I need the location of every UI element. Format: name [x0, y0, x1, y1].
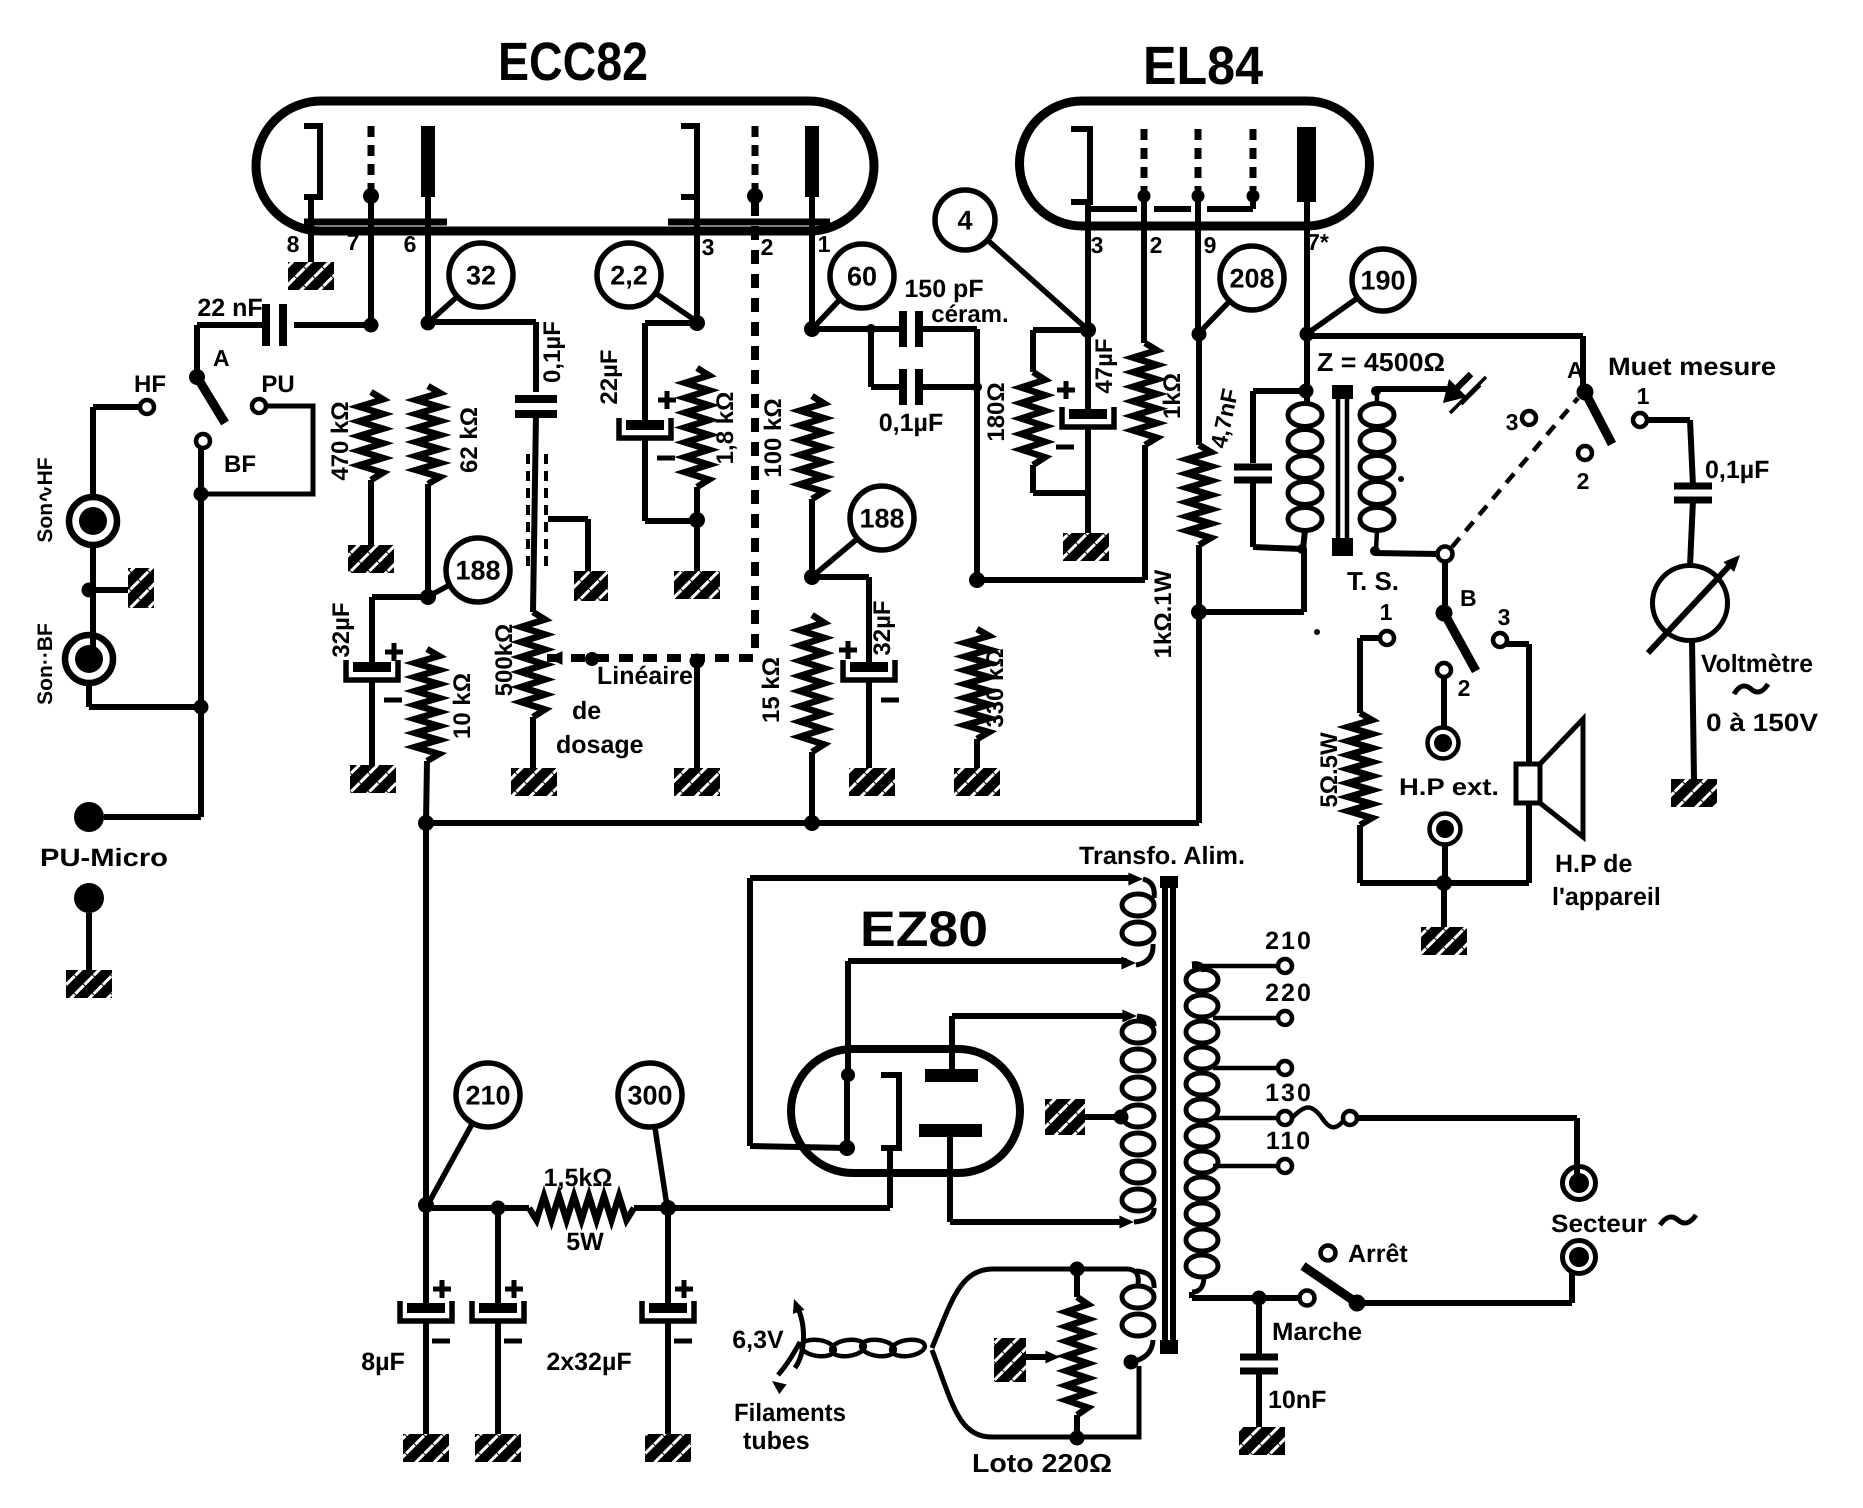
svg-text:Muet mesure: Muet mesure — [1608, 353, 1776, 381]
svg-text:2: 2 — [1150, 232, 1163, 258]
svg-text:100 kΩ: 100 kΩ — [760, 398, 787, 477]
svg-text:Voltmètre: Voltmètre — [1701, 650, 1813, 678]
svg-text:Transfo. Alim.: Transfo. Alim. — [1079, 842, 1245, 870]
svg-text:B: B — [1460, 585, 1477, 611]
svg-text:0,1µF: 0,1µF — [539, 321, 566, 383]
svg-text:A: A — [1567, 357, 1584, 383]
svg-text:HF: HF — [134, 371, 166, 398]
svg-text:Son··BF: Son··BF — [34, 623, 57, 705]
svg-text:Marche: Marche — [1272, 1318, 1362, 1346]
svg-text:15 kΩ: 15 kΩ — [758, 657, 785, 723]
svg-text:1: 1 — [1637, 383, 1650, 409]
svg-text:22µF: 22µF — [596, 349, 623, 404]
svg-text:2x32µF: 2x32µF — [546, 1348, 631, 1376]
svg-text:1: 1 — [818, 231, 831, 257]
svg-text:7*: 7* — [1307, 229, 1329, 255]
svg-text:5Ω.5W: 5Ω.5W — [1316, 732, 1343, 808]
svg-text:60: 60 — [847, 262, 877, 292]
svg-text:Arrêt: Arrêt — [1348, 1240, 1408, 1268]
svg-text:1: 1 — [1380, 599, 1393, 625]
svg-text:PU-Micro: PU-Micro — [40, 844, 168, 872]
svg-text:0,1µF: 0,1µF — [879, 409, 943, 437]
svg-text:110: 110 — [1266, 1127, 1312, 1155]
svg-text:1,8 kΩ: 1,8 kΩ — [712, 392, 739, 465]
svg-text:3: 3 — [1091, 232, 1104, 258]
svg-text:1kΩ.1W: 1kΩ.1W — [1150, 569, 1177, 658]
svg-text:4: 4 — [957, 206, 972, 236]
svg-text:190: 190 — [1360, 266, 1405, 296]
svg-text:150 pF: 150 pF — [904, 275, 983, 303]
svg-text:470 kΩ: 470 kΩ — [327, 401, 354, 480]
svg-text:8: 8 — [287, 231, 300, 257]
svg-text:220: 220 — [1265, 979, 1313, 1007]
svg-text:500kΩ: 500kΩ — [491, 624, 518, 697]
svg-text:A: A — [213, 345, 230, 371]
svg-text:32µF: 32µF — [328, 602, 355, 657]
svg-text:3: 3 — [1498, 604, 1511, 630]
svg-text:Filaments: Filaments — [734, 1399, 846, 1427]
svg-text:208: 208 — [1229, 264, 1274, 294]
svg-text:tubes: tubes — [743, 1427, 810, 1455]
svg-text:BF: BF — [224, 451, 256, 478]
svg-text:0,1µF: 0,1µF — [1705, 456, 1769, 484]
svg-text:2,2: 2,2 — [610, 261, 648, 291]
svg-text:EZ80: EZ80 — [860, 901, 988, 957]
svg-text:2: 2 — [761, 234, 774, 260]
svg-text:6,3V: 6,3V — [732, 1326, 784, 1354]
svg-text:7: 7 — [347, 229, 360, 255]
svg-text:210: 210 — [1265, 927, 1313, 955]
svg-text:Son∿HF: Son∿HF — [34, 457, 57, 542]
svg-text:300: 300 — [627, 1081, 672, 1111]
svg-text:céram.: céram. — [931, 301, 1008, 328]
svg-text:5W: 5W — [566, 1228, 604, 1256]
svg-text:180Ω: 180Ω — [983, 382, 1010, 441]
svg-text:l'appareil: l'appareil — [1552, 883, 1661, 911]
svg-text:6: 6 — [404, 231, 417, 257]
svg-text:9: 9 — [1204, 232, 1217, 258]
svg-text:PU: PU — [261, 371, 294, 398]
svg-text:EL84: EL84 — [1143, 36, 1263, 96]
svg-text:32: 32 — [466, 261, 496, 291]
svg-text:10nF: 10nF — [1268, 1386, 1326, 1414]
svg-text:188: 188 — [455, 556, 500, 586]
svg-text:de: de — [572, 697, 601, 725]
svg-text:210: 210 — [465, 1081, 510, 1111]
svg-text:10 kΩ: 10 kΩ — [449, 673, 476, 739]
svg-text:H.P de: H.P de — [1555, 850, 1632, 878]
svg-text:H.P ext.: H.P ext. — [1399, 774, 1499, 801]
svg-text:Loto 220Ω: Loto 220Ω — [972, 1448, 1112, 1478]
svg-text:Linéaire: Linéaire — [597, 662, 693, 690]
svg-text:1kΩ: 1kΩ — [1159, 373, 1186, 419]
svg-text:Z = 4500Ω: Z = 4500Ω — [1317, 347, 1445, 377]
svg-text:dosage: dosage — [556, 731, 644, 759]
svg-text:2: 2 — [1458, 675, 1471, 701]
svg-text:1,5kΩ: 1,5kΩ — [544, 1164, 613, 1192]
svg-text:130: 130 — [1265, 1079, 1313, 1107]
svg-text:188: 188 — [859, 504, 904, 534]
svg-text:0 à 150V: 0 à 150V — [1706, 709, 1818, 737]
svg-text:2: 2 — [1577, 468, 1590, 494]
svg-text:3: 3 — [1506, 409, 1519, 435]
svg-text:22 nF: 22 nF — [197, 294, 262, 322]
svg-text:ECC82: ECC82 — [498, 32, 648, 92]
svg-text:47µF: 47µF — [1091, 338, 1118, 393]
svg-text:T. S.: T. S. — [1347, 566, 1399, 596]
svg-text:32µF: 32µF — [869, 600, 896, 655]
svg-text:330 kΩ: 330 kΩ — [982, 648, 1009, 727]
svg-text:Secteur: Secteur — [1551, 1210, 1647, 1238]
svg-text:3: 3 — [702, 234, 715, 260]
svg-text:62 kΩ: 62 kΩ — [456, 407, 483, 473]
svg-text:8µF: 8µF — [361, 1348, 405, 1376]
